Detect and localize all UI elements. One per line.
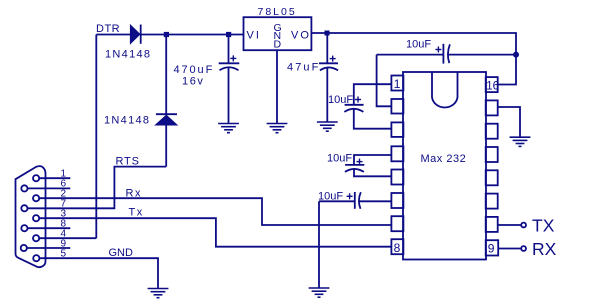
wire C3 to pin2 <box>377 55 391 107</box>
svg-text:Max 232: Max 232 <box>421 153 467 165</box>
wire pin15 to ground <box>498 107 520 137</box>
capacitor C6 10uF pin6 <box>319 192 391 209</box>
pin 15 box <box>486 100 498 115</box>
capacitor C3 10uF top <box>377 44 516 64</box>
node junction J3 <box>325 31 330 36</box>
pin 11 box <box>486 194 498 209</box>
svg-text:47uF: 47uF <box>287 62 320 74</box>
wire pin2 Rx line <box>39 198 391 225</box>
wire DTR vertical drop <box>95 35 97 239</box>
label + (C4) <box>355 97 361 103</box>
pin 7 box <box>391 216 403 231</box>
pin 6 box <box>391 193 403 208</box>
wire DTR top rail <box>96 34 130 36</box>
ground G2 <box>267 124 288 133</box>
IC U1 Max232 body <box>403 72 486 260</box>
wire C6 to ground <box>318 201 320 287</box>
label + (C6) <box>347 193 353 199</box>
wire pin5 GND line <box>39 258 158 288</box>
svg-text:470uF: 470uF <box>174 64 215 76</box>
svg-text:TX: TX <box>532 216 555 236</box>
ground G5 <box>309 288 330 297</box>
svg-text:10uF: 10uF <box>318 191 343 203</box>
svg-text:10uF: 10uF <box>327 153 352 165</box>
capacitor C4 10uF pins1-3 <box>344 84 391 129</box>
svg-text:1: 1 <box>394 77 401 91</box>
regulator U2 78L05 <box>244 17 312 50</box>
pin circle DB9-4 <box>33 235 39 241</box>
pin 8 box <box>391 239 403 254</box>
capacitor C1 470uF 16v <box>219 35 240 123</box>
pin circle DB9-8 <box>21 225 27 231</box>
pin circle DB9-2 <box>33 195 39 201</box>
wire pin3 Tx line <box>39 218 391 247</box>
ground G6 <box>510 137 531 146</box>
wire pin6 stub <box>28 187 71 189</box>
pin circle DB9-9 <box>21 245 27 251</box>
capacitor C2 47uF <box>319 33 338 122</box>
svg-text:1N4148: 1N4148 <box>105 49 151 61</box>
svg-text:RTS: RTS <box>116 156 140 168</box>
svg-text:10uF: 10uF <box>328 94 353 106</box>
wire pin8 stub <box>28 227 71 229</box>
pin circle DB9-3 <box>33 215 39 221</box>
pin 10 box <box>486 217 498 232</box>
ground G4 <box>148 289 169 298</box>
ground G3 <box>317 122 338 131</box>
node junction J4 <box>513 52 519 58</box>
svg-text:VI: VI <box>247 30 261 42</box>
pin circle DB9-1 <box>33 175 39 181</box>
pin 5 box <box>391 170 403 185</box>
svg-text:16: 16 <box>486 81 499 93</box>
wire RX from pin9 <box>498 248 521 250</box>
wire TX from pin10 <box>498 224 521 226</box>
svg-text:Rx: Rx <box>126 188 142 200</box>
wire 78L05 GND stem <box>276 50 278 123</box>
svg-text:8: 8 <box>394 241 401 255</box>
svg-text:5: 5 <box>61 248 67 259</box>
pin 3 box <box>391 122 403 136</box>
svg-text:GND: GND <box>109 247 134 259</box>
terminal RX circle <box>521 246 526 251</box>
pin circle DB9-5 <box>33 255 39 261</box>
terminal TX circle <box>521 223 526 228</box>
node junction J2 <box>226 32 231 37</box>
wire pin9 stub <box>27 247 70 249</box>
pin 13 box <box>486 147 498 162</box>
svg-text:16v: 16v <box>182 76 205 88</box>
wire RTS route <box>28 167 167 209</box>
svg-text:10uF: 10uF <box>406 39 431 51</box>
svg-text:VO: VO <box>291 30 311 42</box>
label + (C1) <box>230 55 236 61</box>
IC U1 notch <box>432 72 458 107</box>
pin 16 box <box>486 77 498 92</box>
ground G1 <box>218 124 239 133</box>
wire pin4 DTR line <box>39 237 96 239</box>
label + (C5) <box>357 159 363 165</box>
pin 4 box <box>391 146 403 161</box>
connector J5 DB9 body <box>16 166 46 267</box>
pin 12 box <box>486 170 498 185</box>
wire rail diode to regulator <box>142 34 244 36</box>
wire pin1 stub <box>39 177 70 179</box>
pin 9 box <box>486 240 499 255</box>
pin 1 box <box>391 76 403 91</box>
pin circle DB9-6 <box>21 185 27 191</box>
svg-text:Tx: Tx <box>129 207 144 219</box>
label + (C3) <box>435 47 441 53</box>
wire VO rail to VCC corner <box>311 33 516 85</box>
pin 14 box <box>486 124 498 139</box>
svg-text:D: D <box>274 38 282 50</box>
label + (C2) <box>330 56 336 62</box>
pin circle DB9-7 <box>21 205 27 211</box>
diode D1 1N4148 <box>130 25 140 44</box>
diode D2 1N4148 vertical <box>156 35 178 167</box>
pin 2 box <box>391 99 403 114</box>
svg-text:78L05: 78L05 <box>258 6 297 18</box>
capacitor C5 10uF pins4-5 <box>345 155 391 176</box>
svg-text:9: 9 <box>488 242 495 256</box>
svg-text:RX: RX <box>532 239 557 259</box>
svg-text:DTR: DTR <box>96 23 120 35</box>
node junction J1 <box>164 32 169 37</box>
svg-text:1N4148: 1N4148 <box>104 115 150 127</box>
